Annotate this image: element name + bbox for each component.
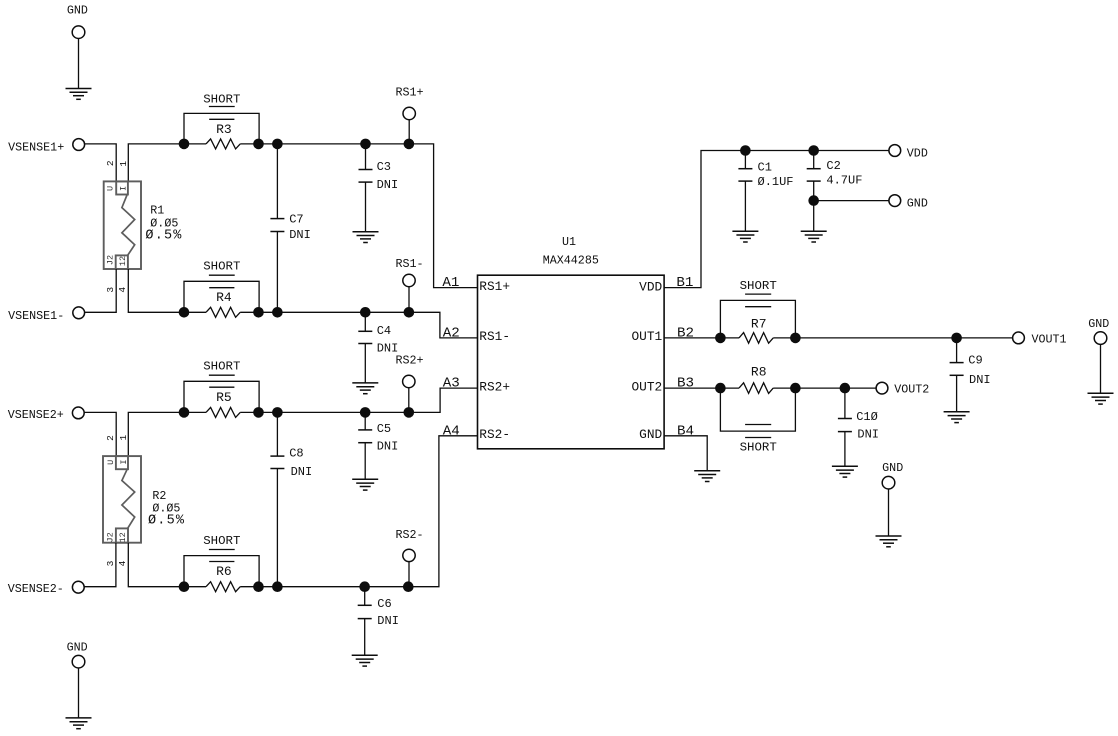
svg-text:C2: C2 (826, 159, 840, 173)
wire (78, 668, 80, 718)
junction (253, 139, 264, 150)
terminal VOUT2 (876, 382, 888, 394)
svg-text:I: I (119, 186, 129, 191)
resistor R4 with SHORT jumper (184, 259, 259, 317)
svg-text:R5: R5 (216, 390, 232, 405)
junction (404, 307, 415, 318)
ground (under C5) (352, 479, 378, 490)
terminal GND (right) (1094, 332, 1107, 345)
junction (951, 333, 962, 344)
svg-text:R3: R3 (216, 122, 232, 137)
wire (84, 543, 116, 587)
wire VSENSE1- main row (128, 269, 206, 312)
junction (790, 333, 801, 344)
svg-text:GND: GND (907, 197, 928, 211)
svg-text:B1: B1 (676, 275, 693, 291)
terminal GND (top-left) (72, 26, 85, 39)
capacitor C10 (838, 388, 852, 466)
capacitor C6 (358, 587, 372, 656)
wire OUT1 (B2) (664, 337, 739, 339)
svg-text:2: 2 (105, 435, 116, 441)
wire (1100, 344, 1102, 393)
svg-text:A3: A3 (443, 376, 460, 392)
junction (272, 307, 283, 318)
svg-text:A4: A4 (443, 423, 460, 439)
capacitor C7 (270, 144, 284, 312)
svg-text:C8: C8 (289, 447, 303, 461)
terminal VSENSE1- (73, 307, 85, 319)
svg-text:GND: GND (882, 461, 903, 475)
svg-text:U: U (106, 186, 116, 191)
junction (840, 383, 851, 394)
svg-text:DNI: DNI (377, 440, 399, 454)
svg-text:RS1-: RS1- (479, 329, 510, 344)
svg-text:U1: U1 (562, 235, 576, 249)
junction (253, 307, 264, 318)
ground (under C4) (352, 383, 378, 394)
svg-text:C6: C6 (377, 597, 391, 611)
resistor R3 with SHORT jumper (184, 92, 259, 149)
svg-text:C4: C4 (377, 324, 391, 338)
svg-text:DNI: DNI (857, 428, 879, 442)
svg-text:C3: C3 (377, 160, 391, 174)
svg-text:I: I (119, 459, 129, 464)
junction (179, 581, 190, 592)
svg-text:RS2-: RS2- (479, 427, 510, 442)
op-amp U1 MAX44285 (478, 235, 665, 449)
ground (under C10) (832, 466, 858, 477)
wire (408, 287, 410, 313)
terminal VSENSE2- (72, 581, 84, 593)
ground (under C6) (352, 655, 378, 666)
junction (360, 139, 371, 150)
svg-text:R7: R7 (751, 316, 767, 331)
svg-text:VDD: VDD (639, 280, 662, 295)
svg-text:R6: R6 (216, 564, 232, 579)
junction (253, 407, 264, 418)
ground (under C1) (732, 231, 758, 242)
wire (888, 489, 890, 536)
ground (bottom-left) (66, 718, 92, 729)
junction (179, 307, 190, 318)
junction (253, 581, 264, 592)
capacitor C8 (270, 412, 284, 586)
terminal RS2+ (403, 375, 415, 387)
resistor R8 with SHORT jumper (720, 365, 795, 455)
svg-text:4.7UF: 4.7UF (826, 174, 862, 188)
wire (814, 200, 889, 202)
svg-text:Ø.1UF: Ø.1UF (758, 175, 794, 189)
svg-text:Ø.5%: Ø.5% (145, 228, 182, 243)
resistor R6 with SHORT jumper (184, 534, 259, 592)
svg-text:4: 4 (117, 560, 128, 566)
wire (408, 388, 410, 413)
terminal GND (right of C2) (889, 195, 901, 207)
junction (404, 139, 415, 150)
svg-text:VOUT2: VOUT2 (894, 383, 929, 397)
terminal RS1+ (403, 107, 415, 119)
svg-text:DNI: DNI (291, 465, 313, 479)
svg-text:VSENSE2+: VSENSE2+ (8, 408, 64, 422)
terminal RS1- (403, 274, 415, 286)
svg-text:B2: B2 (677, 325, 694, 341)
svg-text:RS2-: RS2- (395, 528, 423, 542)
capacitor C3 (359, 144, 373, 232)
svg-text:R8: R8 (751, 365, 767, 380)
svg-text:OUT1: OUT1 (631, 329, 662, 344)
capacitor C4 (358, 312, 372, 383)
svg-text:VSENSE2-: VSENSE2- (8, 582, 64, 596)
svg-text:RS2+: RS2+ (479, 379, 510, 394)
svg-text:DNI: DNI (289, 228, 311, 242)
svg-text:C1: C1 (758, 161, 772, 175)
svg-text:GND: GND (1088, 317, 1109, 331)
svg-text:SHORT: SHORT (203, 360, 240, 374)
svg-text:DNI: DNI (377, 178, 399, 192)
svg-text:DNI: DNI (377, 614, 399, 628)
wire VSENSE1+ main row (128, 144, 206, 182)
svg-text:C1Ø: C1Ø (856, 410, 878, 424)
svg-text:SHORT: SHORT (740, 279, 777, 293)
capacitor C1 (738, 151, 752, 232)
ground (mid-bottom) (876, 536, 902, 547)
svg-text:1: 1 (118, 161, 129, 167)
junction (715, 383, 726, 394)
svg-text:3: 3 (105, 560, 116, 566)
terminal GND (mid-bottom) (882, 476, 895, 489)
svg-text:SHORT: SHORT (203, 534, 240, 548)
terminal VSENSE1+ (73, 139, 85, 151)
svg-text:J2: J2 (106, 255, 116, 265)
capacitor C2 (807, 151, 821, 232)
resistor R1 (4-terminal sense) (104, 160, 141, 292)
svg-text:12: 12 (118, 256, 128, 266)
svg-text:B3: B3 (677, 376, 694, 392)
terminal GND (bottom-left) (72, 655, 85, 668)
ground (under B4) (694, 471, 720, 482)
junction (403, 581, 414, 592)
svg-text:VSENSE1-: VSENSE1- (8, 309, 64, 323)
capacitor C9 (950, 338, 964, 412)
svg-text:12: 12 (118, 532, 128, 542)
wire (85, 144, 117, 182)
junction (179, 407, 190, 418)
label R2 value (148, 489, 185, 529)
svg-text:RS1+: RS1+ (479, 279, 510, 294)
junction (360, 307, 371, 318)
junction (272, 581, 283, 592)
wire (85, 269, 117, 312)
junction (359, 581, 370, 592)
wire GND (B4) (664, 436, 707, 471)
svg-text:4: 4 (117, 287, 128, 293)
junction (360, 407, 371, 418)
junction (179, 139, 190, 150)
svg-text:RS1-: RS1- (395, 257, 423, 271)
svg-text:SHORT: SHORT (740, 441, 777, 455)
svg-text:SHORT: SHORT (203, 92, 240, 106)
svg-text:J2: J2 (106, 532, 116, 542)
ground (right) (1088, 393, 1114, 404)
svg-text:Ø.5%: Ø.5% (148, 514, 185, 529)
svg-text:A2: A2 (443, 325, 460, 341)
svg-text:R4: R4 (216, 290, 232, 305)
wire (84, 412, 116, 456)
svg-text:GND: GND (639, 427, 662, 442)
terminal VSENSE2+ (72, 407, 84, 419)
wire (408, 561, 410, 586)
terminal VDD (889, 145, 901, 157)
wire (78, 38, 80, 88)
label R1 value (145, 204, 182, 244)
resistor R2 (4-terminal sense) (103, 434, 141, 566)
svg-text:3: 3 (105, 287, 116, 293)
svg-text:RS1+: RS1+ (395, 86, 423, 100)
svg-text:A1: A1 (442, 275, 459, 291)
ground (under C9) (944, 412, 970, 423)
ground (under C2) (801, 231, 827, 242)
svg-text:GND: GND (67, 3, 88, 17)
svg-text:VDD: VDD (907, 147, 928, 161)
junction (272, 139, 283, 150)
svg-text:OUT2: OUT2 (631, 379, 662, 394)
junction (808, 145, 819, 156)
svg-text:C7: C7 (289, 213, 303, 227)
svg-text:MAX44285: MAX44285 (543, 253, 599, 267)
svg-text:2: 2 (105, 160, 116, 166)
junction (272, 407, 283, 418)
resistor R7 with SHORT jumper (720, 279, 795, 343)
svg-text:U: U (106, 460, 116, 465)
svg-text:C9: C9 (968, 354, 982, 368)
ground (under C3) (353, 232, 379, 243)
terminal VOUT1 (1013, 332, 1025, 344)
svg-text:B4: B4 (677, 423, 694, 439)
svg-text:VOUT1: VOUT1 (1032, 332, 1067, 346)
junction (715, 333, 726, 344)
wire OUT2 (B3) (664, 387, 739, 389)
junction (790, 383, 801, 394)
resistor R5 with SHORT jumper (184, 360, 259, 418)
svg-text:GND: GND (67, 640, 88, 654)
wire VDD (B1) (664, 151, 889, 288)
svg-text:C5: C5 (377, 422, 391, 436)
wire VSENSE2- main row (128, 543, 206, 587)
junction (740, 145, 751, 156)
svg-text:SHORT: SHORT (203, 259, 240, 273)
wire VSENSE2+ main row (128, 412, 206, 456)
junction (404, 407, 415, 418)
svg-text:1: 1 (118, 434, 129, 440)
capacitor C5 (358, 412, 372, 479)
svg-text:RS2+: RS2+ (395, 353, 423, 367)
svg-text:DNI: DNI (969, 373, 991, 387)
junction (808, 195, 819, 206)
wire (408, 120, 410, 144)
terminal RS2- (403, 549, 415, 561)
ground (top-left) (66, 89, 92, 100)
svg-text:VSENSE1+: VSENSE1+ (8, 141, 64, 155)
